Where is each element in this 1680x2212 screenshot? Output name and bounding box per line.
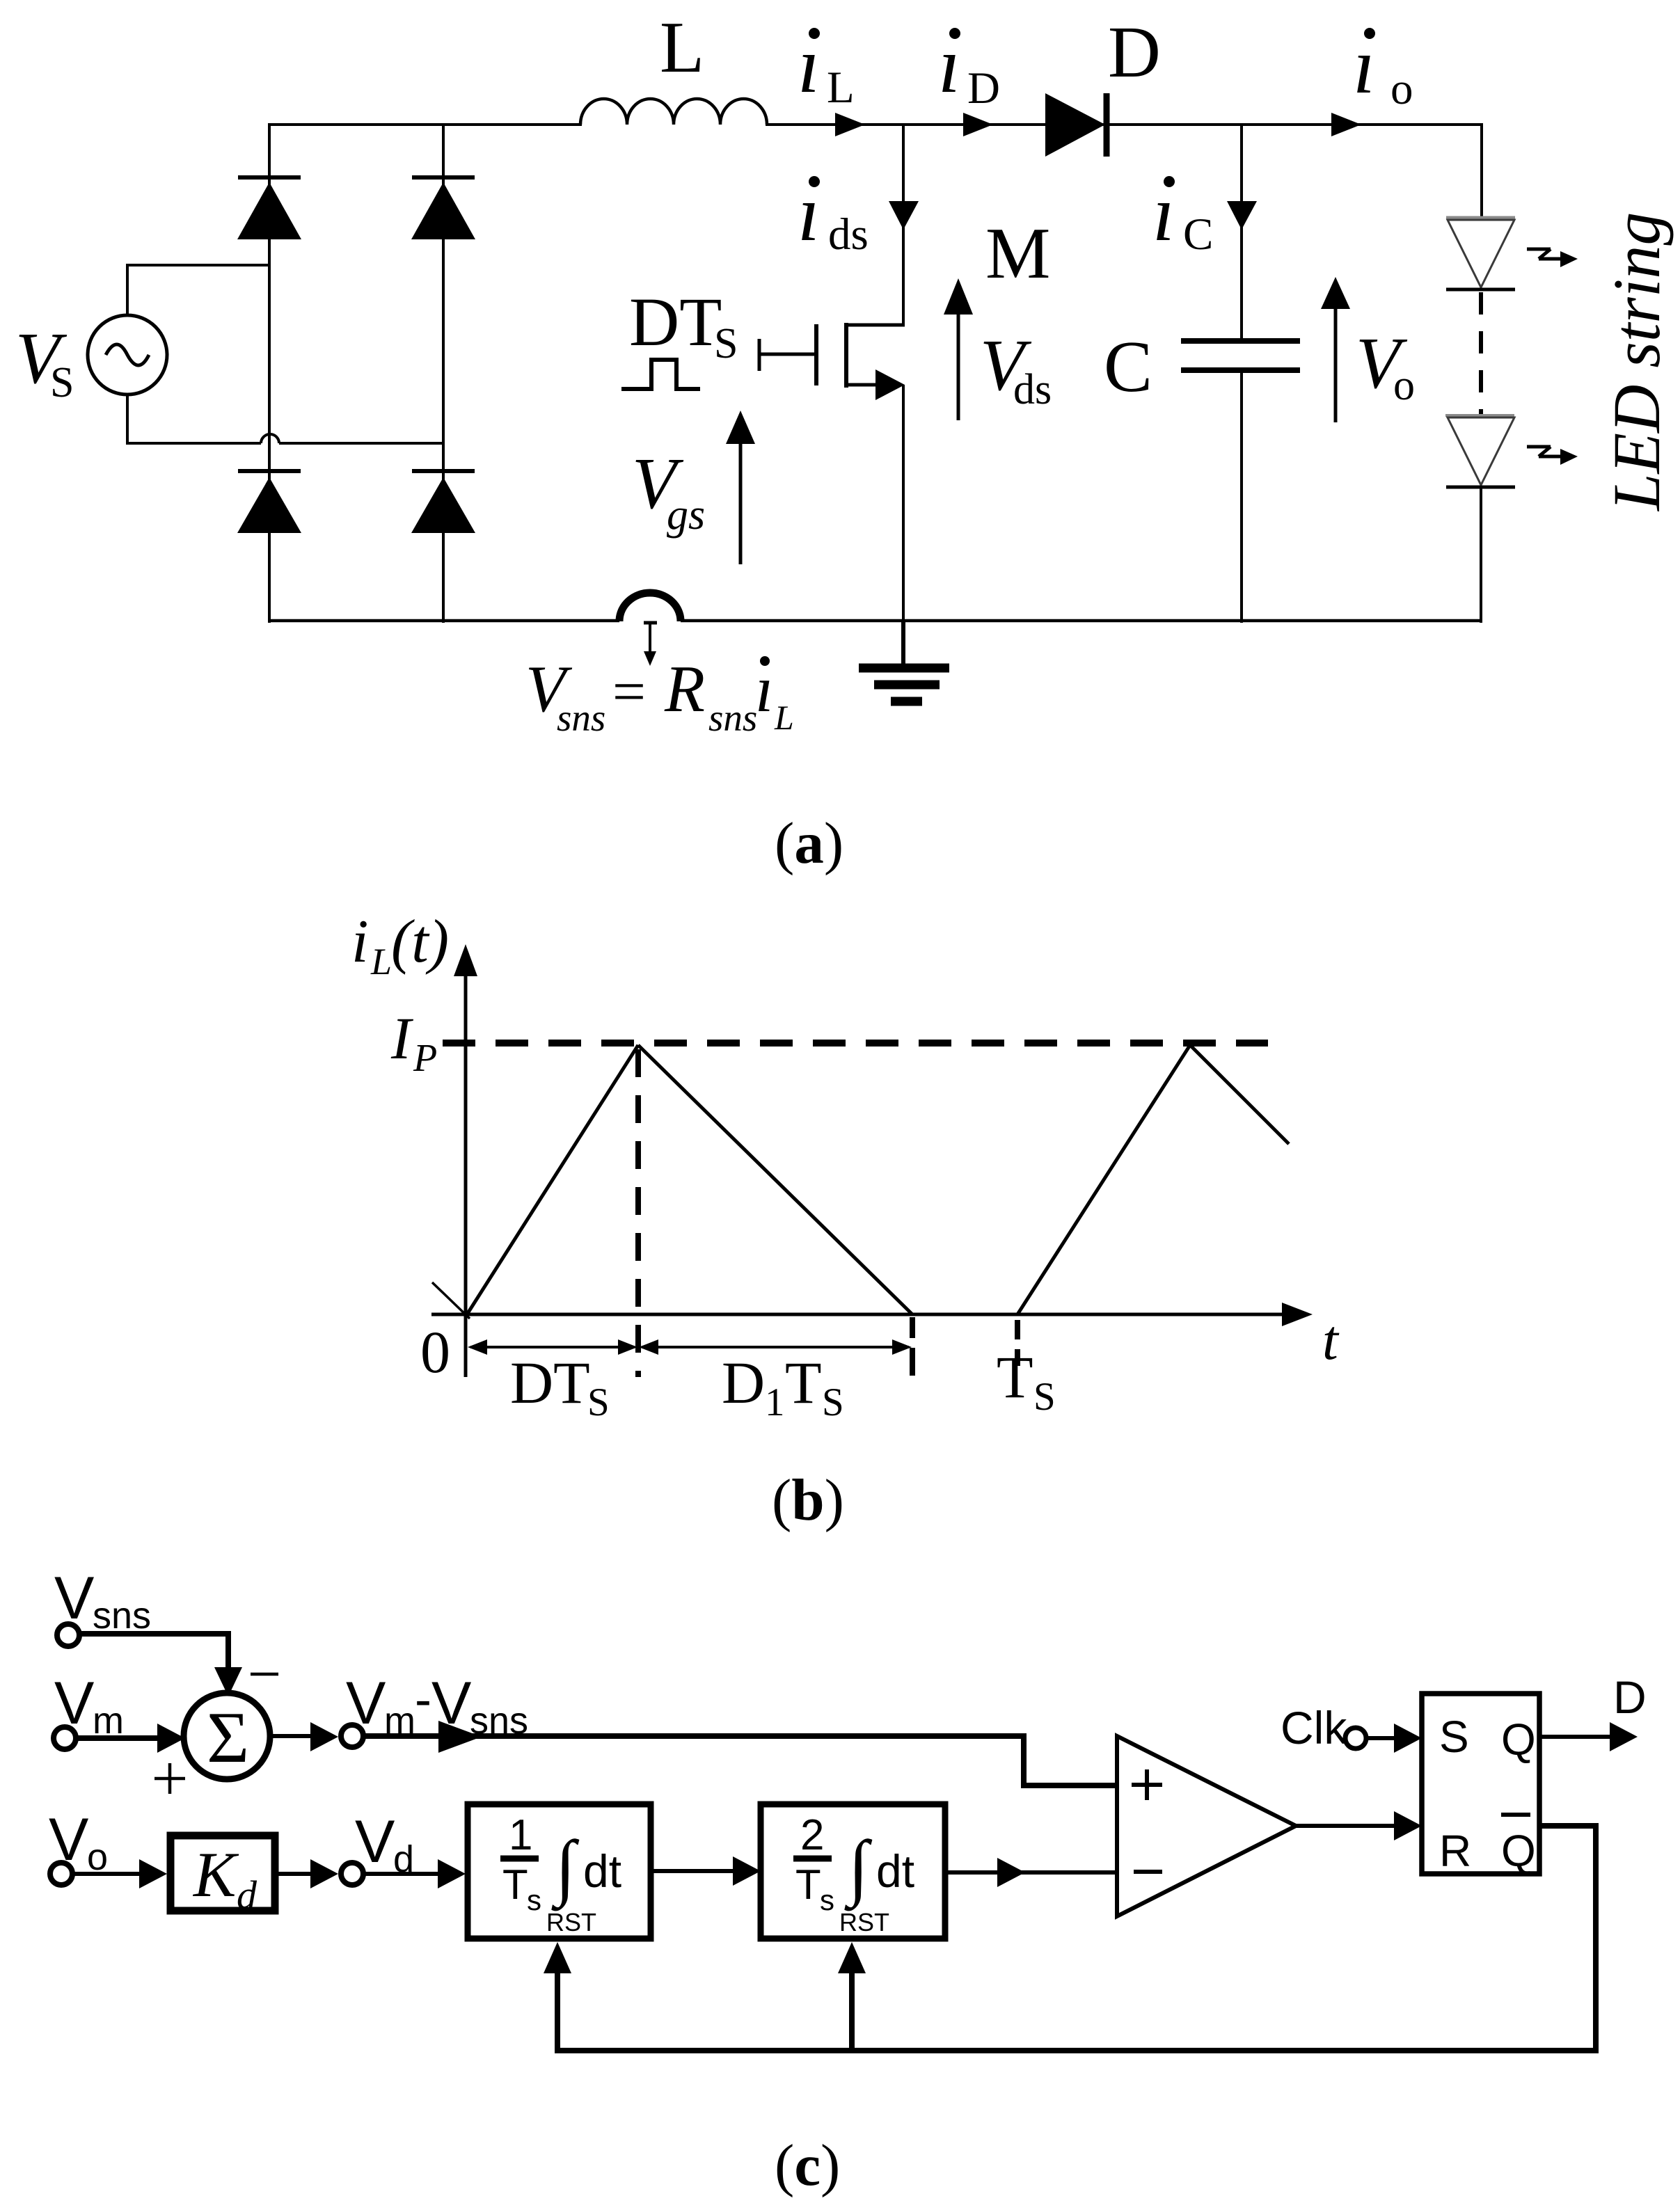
MOSFET M gate bar	[814, 324, 818, 385]
svg-text:T: T	[785, 1349, 822, 1416]
svg-text:L: L	[774, 698, 794, 737]
wire Kd to V_d	[278, 1859, 338, 1888]
svg-text:o: o	[1390, 64, 1413, 114]
svg-text:V: V	[355, 1808, 395, 1875]
bridge diode lower-right	[411, 471, 475, 533]
wire RST riser integrator2	[849, 1973, 855, 2051]
wire Vm-Vsns to comparator plus	[363, 1721, 1117, 1785]
svg-text:V: V	[346, 1670, 386, 1737]
comparator	[1117, 1736, 1296, 1916]
svg-text:D: D	[967, 63, 1000, 113]
svg-text:Q: Q	[1501, 1714, 1536, 1765]
svg-text:DT: DT	[510, 1349, 590, 1416]
svg-text:2: 2	[800, 1811, 824, 1859]
label minus at summer	[251, 1673, 278, 1676]
svg-text:(a): (a)	[775, 811, 843, 876]
svg-text:D: D	[722, 1349, 765, 1416]
wire integrator1 to integrator2	[651, 1856, 761, 1886]
tick at D1Ts end	[910, 1317, 915, 1376]
wire Q output D	[1539, 1722, 1638, 1751]
svg-text:gs: gs	[667, 491, 705, 539]
wire LED branch top corner	[1480, 123, 1483, 219]
arrow V_sns sense	[644, 623, 657, 666]
waveform rise 2	[1017, 1045, 1190, 1314]
label DTs	[510, 1349, 610, 1424]
svg-text:t: t	[1322, 1308, 1340, 1371]
integrator block 1	[468, 1804, 651, 1939]
waveform fall 2	[1190, 1045, 1289, 1144]
svg-text:1: 1	[765, 1380, 785, 1424]
wire LED branch bottom	[1480, 486, 1482, 623]
waveform rise 1	[467, 1045, 638, 1314]
terminal Vm-Vsns	[341, 1725, 363, 1747]
svg-text:C: C	[1183, 209, 1213, 260]
svg-text:S: S	[50, 359, 74, 406]
label D1Ts	[722, 1349, 844, 1424]
bridge diode upper-right	[411, 177, 475, 239]
svg-text:s: s	[527, 1884, 541, 1916]
arrow i_D	[963, 113, 993, 136]
svg-text:S: S	[822, 1380, 844, 1424]
wire bottom rail	[268, 619, 1482, 623]
svg-text:K: K	[192, 1839, 239, 1910]
svg-text:DT: DT	[629, 283, 722, 360]
flip-flop SR	[1422, 1694, 1539, 1876]
integrator block 2	[761, 1804, 945, 1939]
arrow RST integrator2	[838, 1942, 866, 1973]
svg-text:T: T	[997, 1344, 1033, 1410]
svg-text:P: P	[413, 1037, 437, 1080]
svg-text:S: S	[1033, 1375, 1056, 1419]
graph x-axis t	[431, 1303, 1313, 1326]
svg-text:LED string: LED string	[1599, 212, 1674, 512]
svg-text:∫: ∫	[551, 1826, 580, 1911]
wire integrator2 to comparator minus	[945, 1858, 1117, 1887]
dashed I_P level line	[443, 1040, 1268, 1047]
label plus at summer	[154, 1763, 185, 1794]
label Ts	[997, 1344, 1056, 1419]
summer sigma	[184, 1693, 270, 1779]
wire V_m to summer	[76, 1724, 185, 1753]
bridge diode upper-left	[237, 177, 301, 239]
LED 2	[1445, 415, 1515, 487]
svg-text:0: 0	[420, 1319, 450, 1385]
svg-text:V: V	[54, 1565, 94, 1632]
label i_L(t)	[351, 908, 449, 982]
wire drain vertical	[902, 125, 905, 325]
wire V_d to integrator 1	[363, 1859, 466, 1888]
MOSFET M gate lead	[758, 339, 816, 371]
tick at Ts	[1015, 1320, 1020, 1366]
svg-text:RST: RST	[546, 1908, 596, 1936]
svg-text:ds: ds	[1013, 366, 1052, 413]
svg-text:ds: ds	[828, 209, 869, 260]
svg-text:I: I	[390, 1005, 413, 1072]
svg-text:i: i	[351, 908, 368, 976]
label I_P	[390, 1005, 437, 1080]
label i_C	[1152, 169, 1213, 260]
svg-text:∫: ∫	[844, 1826, 873, 1911]
arrow i_C	[1227, 201, 1257, 230]
wire comparator to R	[1296, 1811, 1422, 1840]
wire Qbar feedback	[557, 1826, 1596, 2051]
wire capacitor branch top	[1240, 125, 1243, 341]
svg-text:S: S	[587, 1380, 610, 1424]
svg-text:s: s	[820, 1884, 834, 1916]
wire capacitor branch bottom	[1240, 370, 1243, 623]
wire V_sns to summer	[79, 1634, 242, 1696]
svg-text:(c): (c)	[775, 2133, 840, 2198]
MOSFET M channel bar	[844, 323, 848, 388]
label i_o	[1353, 22, 1413, 114]
arrow i_ds	[889, 201, 919, 230]
bridge right leg	[442, 123, 445, 623]
label i_L	[798, 21, 855, 113]
svg-text:o: o	[1393, 362, 1415, 409]
svg-text:sns: sns	[557, 697, 605, 739]
ground	[859, 621, 949, 701]
label V_ds	[980, 324, 1052, 413]
wire top rail right segment	[766, 123, 1482, 126]
dimension arrow D1Ts	[639, 1339, 912, 1355]
label V_d	[355, 1808, 414, 1880]
label i_D	[938, 21, 1000, 113]
label V_gs	[632, 443, 705, 539]
sense element hump	[619, 593, 681, 621]
terminal V_m	[54, 1727, 76, 1749]
svg-text:S: S	[1439, 1712, 1469, 1762]
wire Clk to S	[1366, 1724, 1422, 1753]
label V_o input	[49, 1806, 108, 1878]
svg-text:1: 1	[509, 1811, 532, 1859]
arrow i_o	[1331, 113, 1361, 136]
svg-text:L: L	[660, 6, 704, 88]
svg-text:D: D	[1613, 1671, 1647, 1723]
svg-text:T: T	[502, 1861, 528, 1908]
label V_m	[54, 1670, 124, 1742]
svg-text:-: -	[415, 1672, 431, 1728]
svg-text:sns: sns	[93, 1595, 151, 1637]
arrow V_o	[1321, 277, 1350, 422]
svg-text:R: R	[1439, 1826, 1471, 1876]
svg-text:V: V	[49, 1806, 88, 1873]
terminal Clk	[1345, 1728, 1366, 1749]
capacitor C plates	[1181, 341, 1300, 370]
MOSFET M gate pulse DTs symbol	[621, 360, 700, 389]
label DTs	[629, 283, 738, 367]
bridge left leg	[268, 123, 271, 623]
source V_S	[88, 315, 167, 395]
MOSFET M source lead with arrow	[844, 369, 905, 400]
svg-text:d: d	[237, 1872, 257, 1918]
MOSFET M drain lead	[844, 324, 905, 327]
label i_ds	[798, 169, 869, 260]
wire top rail left segment	[268, 123, 582, 126]
wire V_o to Kd	[72, 1859, 167, 1888]
svg-text:V: V	[54, 1670, 94, 1737]
svg-text:(t): (t)	[391, 908, 449, 976]
wire summer output	[270, 1722, 338, 1751]
arrow RST integrator1	[544, 1942, 571, 1973]
svg-text:R: R	[664, 652, 705, 726]
arrow V_gs	[726, 411, 755, 564]
label V_o	[1356, 322, 1415, 409]
bridge diode lower-left	[237, 471, 301, 533]
gain block Kd	[171, 1836, 275, 1918]
svg-text:Q: Q	[1501, 1826, 1536, 1876]
terminal V_d	[341, 1863, 363, 1885]
svg-text:L: L	[827, 63, 855, 113]
dashed peak vertical	[635, 1049, 641, 1377]
svg-text:(b): (b)	[772, 1467, 844, 1533]
svg-text:dt: dt	[583, 1845, 621, 1897]
label V_sns = R_sns i_L	[525, 652, 794, 739]
LED 1 emission arrows	[1527, 249, 1578, 267]
graph y-axis i_L(t)	[454, 944, 477, 1377]
label V_S	[15, 317, 74, 406]
svg-text:L: L	[370, 941, 392, 982]
arrow V_ds	[944, 278, 973, 420]
svg-text:S: S	[714, 320, 738, 367]
origin slash	[432, 1282, 470, 1319]
waveform fall 1	[638, 1045, 912, 1314]
svg-text:C: C	[1104, 326, 1152, 407]
svg-text:dt: dt	[876, 1845, 914, 1897]
terminal V_sns	[57, 1624, 79, 1646]
wire dashed LED string gap	[1479, 292, 1483, 415]
svg-text:=: =	[612, 659, 646, 724]
svg-text:T: T	[795, 1861, 821, 1908]
dimension arrow DTs	[468, 1339, 637, 1355]
svg-text:Clk: Clk	[1281, 1702, 1347, 1753]
svg-text:D: D	[1108, 11, 1161, 93]
label V_sns	[54, 1565, 151, 1637]
LED 1	[1446, 218, 1515, 289]
svg-text:Σ: Σ	[207, 1696, 249, 1778]
LED 2 emission arrows	[1527, 447, 1578, 465]
arrow i_L	[835, 113, 865, 136]
label Vm-Vsns	[346, 1670, 528, 1742]
svg-text:RST: RST	[839, 1908, 889, 1936]
wire source top	[127, 265, 271, 315]
svg-text:sns: sns	[708, 697, 757, 739]
wire source bottom with crossover	[127, 395, 445, 443]
svg-text:M: M	[985, 212, 1050, 294]
diode D	[1045, 93, 1107, 157]
inductor L	[580, 99, 767, 125]
terminal V_o input	[50, 1863, 72, 1885]
MOSFET M source vertical	[902, 385, 905, 623]
